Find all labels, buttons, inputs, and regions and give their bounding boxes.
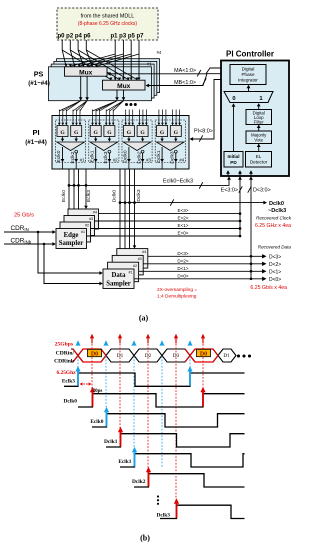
svg-text:#4: #4 [93,211,97,215]
wire mux to DPI [247,85,251,92]
svg-text:from the shared MDLL: from the shared MDLL [81,13,135,19]
svg-text:D<1>: D<1> [177,266,189,271]
wire MV to DLF [257,125,261,131]
svg-text:Eclk0: Eclk0 [61,190,67,202]
wire CDRinb branch to Data Sampler [44,244,103,285]
Edge Sampler stack (#1-#4) [56,209,99,249]
PI slice #2 (Eclk1/Eclk3) [89,110,119,170]
clock waveform Eclk1 [118,454,244,467]
clock waveform Eclk0 [90,414,244,427]
svg-text:Filter: Filter [254,120,264,125]
red arrows Dclk0 rising edges [90,387,206,407]
fan-out wires PS outputs to PI #1 gates [59,101,87,111]
svg-text:#3: #3 [138,257,142,261]
svg-text:D0: D0 [200,351,207,357]
PI Controller block [221,61,289,177]
wires Mux2 outputs [115,90,125,101]
svg-text:#4: #4 [157,50,162,55]
svg-text:Eclk0: Eclk0 [90,419,103,425]
PS phase-selector block stack (#1-#4) [49,50,162,101]
clock waveform Eclk3 [62,373,245,386]
svg-text:6.25 GHz x 4ea: 6.25 GHz x 4ea [255,223,291,229]
svg-text:PI Controller: PI Controller [226,50,274,59]
svg-text:#1: #1 [81,230,85,234]
svg-text:Eclk3: Eclk3 [86,190,92,202]
svg-text:6.25 Gb/s x 4ea: 6.25 Gb/s x 4ea [250,285,287,291]
bus Dclk0~Dclk3 recovered clock output [119,199,287,214]
svg-text:D2: D2 [145,353,152,359]
clock waveform Dclk1 [104,434,244,447]
PI slice #1 (Eclk0/Eclk2) [56,110,86,170]
svg-text:Mux: Mux [79,70,93,77]
svg-text:Dclk3: Dclk3 [136,189,142,202]
svg-text:D<1>: D<1> [269,270,281,276]
svg-text:(b): (b) [140,534,150,543]
clock waveform Dclk2 [132,474,244,487]
svg-text:CDRinb: CDRinb [54,358,74,364]
data sample markers (red arrows above eye) [90,334,205,344]
PI slice #3 (Dclk0/Dclk2) [122,110,152,170]
svg-text:G: G [94,130,99,136]
svg-text:Phase: Phase [241,72,254,77]
svg-text:Dclk0: Dclk0 [269,201,284,207]
svg-text:D<2>: D<2> [177,258,189,263]
svg-text:D1: D1 [223,353,230,359]
svg-text:E<2>: E<2> [178,216,189,221]
svg-text:Dclk0: Dclk0 [123,150,129,163]
svg-text:20ps: 20ps [93,389,103,394]
wire CDRin [4,225,56,234]
wire PI<8:0> from PI Controller to PI block [190,80,232,142]
svg-text:Eclk0: Eclk0 [56,150,62,162]
red arrow Dclk1 rising edge [118,427,123,447]
EL detector [246,152,272,168]
svg-text:(a): (a) [139,314,149,323]
svg-text:Dclk0: Dclk0 [112,190,118,203]
svg-text:G: G [74,130,79,136]
controller input stubs [226,170,253,176]
blue arrow Eclk1 rising edge [132,447,137,467]
demultiplexing annotation [157,287,197,300]
svg-text:PD: PD [230,160,237,165]
svg-text:Dclk3: Dclk3 [157,513,171,519]
svg-text:25Gbps: 25Gbps [55,342,74,348]
svg-text:(#1~#4): (#1~#4) [25,139,47,146]
svg-text:0: 0 [232,96,235,102]
svg-text:D<0>: D<0> [177,273,189,278]
digital phase integrator U-DPI [230,65,266,85]
wire Initial PD to mux input 0 [232,103,236,151]
mux trapezoid (initial/loop select) [224,92,273,103]
svg-text:2X-oversampling =: 2X-oversampling = [157,287,197,293]
svg-text:p1 p3 p5 p7: p1 p3 p5 p7 [111,32,144,39]
svg-text:Eclk2: Eclk2 [70,151,76,163]
svg-text:Integrator: Integrator [238,78,258,83]
svg-text:G: G [160,130,165,136]
PS block label [28,70,50,88]
ellipsis after eye [237,354,251,357]
PI block label [25,128,47,146]
20ps offset marker [80,382,103,394]
svg-text:(#1~#4): (#1~#4) [28,80,50,87]
PI slice #4 (Dclk1/Dclk3) [155,110,185,170]
wires Dclk0-Dclk3 from PI to Data Sampler [112,169,142,269]
data bit labels D1 D2 D3 D1 [117,353,230,359]
svg-text:G: G [127,130,132,136]
svg-text:p0 p2 p4 p6: p0 p2 p4 p6 [58,32,91,39]
edge sample markers (blue triangles) [76,340,193,345]
data eye waveform CDRin/CDRinb [71,349,236,362]
wire CDRin branch to Data Sampler [38,232,103,275]
wire MA<1:0> from Digital Phase Integrator to Mux1 [107,68,231,76]
svg-text:Initial: Initial [228,154,240,159]
svg-text:D<0>: D<0> [269,277,281,283]
MDLL shared clock source box [57,8,158,40]
svg-text:#1: #1 [80,157,85,162]
ellipsis dots (omitted PS wiring) [125,103,137,106]
svg-text:CDRin/: CDRin/ [56,350,75,356]
PI phase-interpolator block [52,116,189,170]
svg-text:Sampler: Sampler [59,240,84,247]
svg-text:6.25Ghz: 6.25Ghz [56,370,76,376]
wires Mux1 outputs [79,76,89,101]
svg-text:1:4 Demultiplexing: 1:4 Demultiplexing [157,294,197,300]
wire DLF to mux [257,103,261,109]
wire ELD to MV [257,144,261,152]
digital loop filter [246,110,272,125]
wires p1 p3 p5 p7 from MDLL to PS Mux2 [114,40,141,80]
svg-text:#4: #4 [142,250,146,254]
svg-text:D<3>: D<3> [177,251,189,256]
wires p0 p2 p4 p6 from MDLL to PS Mux1 [62,40,93,67]
wires D<3>..D<0> from Data Sampler outputs [134,176,281,283]
svg-text:Eclk1: Eclk1 [118,459,131,465]
wires Eclk0-Eclk3 from PI to Edge Sampler [61,169,92,229]
svg-text:Mux: Mux [117,83,131,90]
svg-text:E<1>: E<1> [178,223,189,228]
svg-text:Eclk0~Eclk3: Eclk0~Eclk3 [163,179,193,185]
blue arrow Eclk0 rising edge [104,407,109,427]
svg-text:E<0>: E<0> [178,231,189,236]
red arrow Dclk3 rising edge [174,498,179,518]
svg-text:Eclk3: Eclk3 [62,378,75,384]
svg-text:MB<1:0>: MB<1:0> [174,80,196,86]
svg-text:E<3:0>: E<3:0> [221,188,238,194]
svg-text:Dclk1: Dclk1 [104,439,118,445]
svg-text:#1: #1 [129,271,133,275]
svg-text:PS: PS [34,70,44,79]
svg-text:D<2>: D<2> [269,262,281,268]
highlighted D0 eye segments (red) [73,349,218,362]
crossing wires p0 p2 p4 p6 to Mux2 [62,50,138,80]
svg-text:G: G [60,130,65,136]
mux M2 (PS) [103,80,146,90]
red dashed data-sampling lines [92,344,203,506]
fan-out wires PS outputs to PI #2 gates [92,101,123,111]
svg-text:Eclk3: Eclk3 [103,151,109,163]
mux M1 (PS) [65,67,108,77]
svg-text:D0: D0 [91,351,98,357]
svg-text:PI: PI [32,128,39,137]
wire MB<1:0> from Digital Phase Integrator to Mux2 [146,74,232,88]
svg-text:G: G [140,130,145,136]
svg-text:PI<8:0>: PI<8:0> [194,129,213,135]
svg-text:Digital: Digital [242,67,255,72]
D0 highlight boxes [88,349,211,357]
initial PD [224,152,243,168]
svg-text:Dclk2: Dclk2 [136,151,142,164]
svg-text:Data: Data [112,272,127,279]
svg-text:#2: #2 [133,264,137,268]
blue arrows Eclk3 rising edges [75,366,192,386]
label 25Gbps CDRin/CDRinb [54,342,74,365]
svg-text:Detector: Detector [250,160,268,165]
svg-text:#2: #2 [85,224,89,228]
svg-text:#2: #2 [113,157,118,162]
svg-text:25 Gb/s: 25 Gb/s [14,212,34,218]
recovered data annotation [250,245,291,291]
svg-text:Dclk2: Dclk2 [132,479,146,485]
svg-text:(8-phase 6.25 GHz clocks): (8-phase 6.25 GHz clocks) [78,21,138,27]
clock waveform Dclk3 [157,505,245,518]
svg-text:Dclk3: Dclk3 [170,151,176,164]
svg-text:#3: #3 [89,217,93,221]
svg-text:Edge: Edge [64,232,79,239]
svg-text:#4: #4 [179,157,184,162]
svg-text:MA<1:0>: MA<1:0> [174,68,196,74]
crossing wires p1 p3 p5 p7 to Mux1 [69,54,139,67]
svg-text:Vote: Vote [254,138,263,143]
svg-text:Sampler: Sampler [106,281,131,288]
Data Sampler stack (#1-#4) [103,249,148,289]
svg-text:Eclk1: Eclk1 [89,150,95,162]
svg-text:Recovered Clock: Recovered Clock [256,216,292,221]
svg-text:Dclk1: Dclk1 [156,150,162,163]
svg-text:D<3>: D<3> [269,255,281,261]
svg-text:#1: #1 [147,61,152,66]
svg-text:Recovered Data: Recovered Data [258,245,292,250]
red arrows Dclk2 rising edges [146,467,151,487]
svg-text:EL: EL [256,154,262,159]
clock waveform Dclk0 [64,394,245,407]
wires E<3>..E<0> from Edge Sampler to PI Controller [87,176,243,237]
svg-text:#3: #3 [146,157,151,162]
bus Eclk0~Eclk3 to PI Controller [68,176,231,188]
svg-text:~Dclk3: ~Dclk3 [268,208,286,214]
svg-text:D<3:0>: D<3:0> [253,188,271,194]
svg-text:Dclk0: Dclk0 [64,399,78,405]
svg-text:D3: D3 [173,353,180,359]
svg-text:G: G [107,130,112,136]
majority vote [246,131,272,144]
svg-text:D1: D1 [117,353,124,359]
svg-text:E<3>: E<3> [178,208,189,213]
vertical ellipsis (omitted clocks) [157,495,159,505]
blue dashed edge-sampling lines [78,356,190,467]
svg-text:CDRIN: CDRIN [11,225,29,232]
svg-text:G: G [174,130,179,136]
wire CDRinb [4,238,56,246]
recovered clock annotation [255,216,292,230]
